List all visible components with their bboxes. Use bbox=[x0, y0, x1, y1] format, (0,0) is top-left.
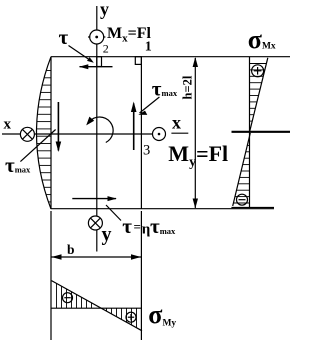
leader arrowhead top bbox=[87, 57, 94, 63]
element square at point 1 bbox=[135, 57, 141, 65]
sigma_Mx lower diagonal bbox=[233, 133, 251, 206]
svg-text:=: = bbox=[134, 219, 141, 234]
y axis inside section bbox=[96, 44, 98, 216]
svg-text:My=Fl: My=Fl bbox=[168, 141, 228, 170]
svg-text:y: y bbox=[102, 224, 112, 246]
sigma_Mx diagram bottom line bbox=[231, 207, 274, 209]
tau arrow on bottom edge (points right) bbox=[72, 196, 117, 201]
y axis bottom segment bbox=[96, 230, 98, 252]
sigma_Mx plus sign circle bbox=[252, 65, 264, 77]
svg-text:τ: τ bbox=[59, 25, 69, 49]
leader line from tau label to top arrow bbox=[69, 46, 93, 62]
leader line from bottom arrow to eta tau label bbox=[106, 205, 121, 221]
b dimension line bbox=[52, 254, 142, 259]
left parabolic shear stress diagram curve bbox=[37, 57, 52, 209]
sigma_Mx diagram x-level line bbox=[232, 131, 291, 133]
svg-text:y: y bbox=[100, 0, 109, 19]
tau arrow on right edge (points up) bbox=[131, 102, 137, 151]
svg-text:x: x bbox=[4, 117, 12, 133]
svg-text:3: 3 bbox=[143, 143, 150, 159]
x axis left segment bbox=[2, 133, 20, 135]
svg-text:σMy: σMy bbox=[148, 300, 176, 329]
y axis top segment bbox=[96, 6, 98, 30]
hatching of left parabola diagram bbox=[37, 71, 52, 202]
sigma_Mx minus sign circle bbox=[237, 194, 248, 205]
rectangle cross-section outline bbox=[51, 57, 290, 209]
x-direction vector circle (cross, into plane) bbox=[20, 127, 34, 141]
torque arc arrow at centroid bbox=[86, 117, 113, 143]
sigma_Mx diagram axis bbox=[249, 57, 251, 208]
tau arrow on left edge (points down) bbox=[56, 102, 62, 152]
sigma_Mx upper diagonal bbox=[250, 58, 268, 131]
sigma_My diagonal bbox=[52, 281, 143, 331]
sigma_My diagram baseline bbox=[51, 307, 142, 309]
leader line from left tau_max label to left edge bbox=[20, 130, 55, 162]
svg-text:h=2l: h=2l bbox=[181, 75, 195, 99]
moment vector circle 3 (dot, out of plane) bbox=[153, 128, 166, 141]
svg-text:1: 1 bbox=[145, 40, 152, 55]
b dimension extension lines bbox=[50, 211, 52, 340]
sigma_My plus sign circle bbox=[126, 312, 136, 322]
sigma_My hatching bbox=[57, 283, 137, 327]
svg-text:b: b bbox=[67, 242, 75, 257]
x axis right arrow segment bbox=[171, 132, 188, 134]
svg-text:x: x bbox=[172, 113, 181, 133]
svg-text:τ: τ bbox=[122, 214, 132, 238]
sigma_Mx hatching bbox=[233, 64, 266, 204]
svg-text:2: 2 bbox=[103, 41, 109, 55]
y-direction vector circle (cross, into plane) bbox=[88, 216, 102, 230]
tau arrow on top edge (points left) bbox=[79, 64, 113, 69]
leader line from right tau_max label to right edge arrow bbox=[140, 97, 160, 113]
x axis main segment bbox=[35, 133, 153, 135]
svg-text:τmax: τmax bbox=[152, 76, 178, 100]
svg-text:τmax: τmax bbox=[150, 214, 176, 238]
leader arrowhead right bbox=[138, 111, 147, 115]
svg-text:τmax: τmax bbox=[5, 153, 31, 177]
sigma_My minus sign circle bbox=[63, 293, 73, 303]
moment vector circle 2 (dot, out of plane) bbox=[88, 30, 105, 44]
element square at point 2 bbox=[97, 57, 102, 67]
h dimension line bbox=[193, 57, 198, 209]
svg-text:σMx: σMx bbox=[248, 25, 276, 54]
